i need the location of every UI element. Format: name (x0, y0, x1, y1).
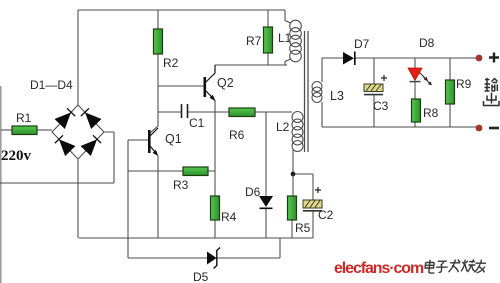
diode D6 (259, 196, 273, 207)
wire D6 anode vertical (265, 112, 267, 196)
watermark chinese dian (425, 260, 436, 273)
wire bridge top to top rail (77, 10, 79, 105)
wire Q2 base (158, 85, 204, 87)
wire Q1 emitter vertical (157, 156, 159, 238)
wire R3 row (128, 170, 215, 172)
node A junction dot (291, 172, 296, 177)
svg-text:R9: R9 (456, 77, 472, 91)
svg-text:R7: R7 (246, 34, 262, 48)
svg-text:D8: D8 (419, 36, 435, 50)
zener diode D5 (207, 252, 217, 265)
resistor R2 (154, 29, 163, 54)
resistor R5 (288, 196, 297, 220)
output terminal minus (476, 125, 483, 132)
label shuchu output chinese (484, 78, 500, 106)
wire secondary top rail (322, 57, 476, 59)
wire R2 bottom lead to C1 node (157, 54, 159, 112)
svg-text:R8: R8 (423, 106, 439, 120)
wire L3 bottom lead (321, 102, 323, 127)
page edge shading left (0, 86, 2, 283)
wire 220v return line (0, 132, 114, 183)
svg-text:C1: C1 (189, 116, 205, 130)
svg-text:D1—D4: D1—D4 (30, 78, 73, 92)
inductor L2 feedback winding (292, 112, 303, 152)
resistor R8 (412, 99, 421, 122)
watermark chinese you (474, 260, 486, 273)
svg-text:L1: L1 (278, 31, 292, 45)
wire node A to R5 (292, 174, 294, 196)
wire D8 leads (414, 58, 416, 99)
svg-text:D7: D7 (354, 37, 370, 51)
wire C1 left node (158, 111, 181, 113)
wire node A to C2 (293, 174, 313, 200)
capacitor C2 electrolytic (303, 187, 322, 211)
wire D5 loop (128, 238, 280, 258)
wire C2 bottom lead (312, 211, 314, 238)
svg-text:R6: R6 (229, 128, 245, 142)
LED D8 (408, 68, 422, 81)
svg-text:elecfans·com: elecfans·com (334, 260, 424, 277)
wire ground rail (79, 237, 313, 239)
node bridge diamond (52, 105, 104, 159)
wire L2 bottom to node A (292, 150, 294, 174)
wire Q1 collector (150, 112, 158, 133)
svg-text:R2: R2 (163, 56, 179, 70)
transistor Q1 (149, 128, 158, 154)
output terminal plus (476, 55, 483, 62)
inductor L1 primary winding (290, 20, 302, 62)
svg-text:R5: R5 (295, 221, 311, 235)
wire R7 bottom lead (267, 53, 269, 65)
diode bridge D2 top-right (81, 108, 100, 128)
svg-text:R4: R4 (221, 210, 237, 224)
svg-text:R1: R1 (16, 111, 32, 125)
svg-text:C2: C2 (318, 208, 334, 222)
diode bridge D1 top-left (56, 108, 75, 128)
svg-text:L2: L2 (276, 120, 290, 134)
resistor R4 (211, 196, 220, 220)
resistor R1 (12, 126, 37, 135)
svg-text:D6: D6 (245, 185, 261, 199)
wire top rail (78, 9, 285, 11)
wire Q1 base (128, 139, 148, 141)
diode bridge D3 bottom-left (55, 135, 74, 155)
wire R4 bottom lead (214, 220, 216, 238)
svg-text:220v: 220v (1, 148, 32, 164)
capacitor C1 (182, 104, 188, 118)
svg-text:Q2: Q2 (217, 76, 234, 90)
svg-text:R3: R3 (173, 178, 189, 192)
wire C3 top lead (373, 58, 375, 84)
wire R7 top lead (267, 10, 269, 27)
wire R1 to bridge left node (37, 129, 52, 131)
wire R8 bottom lead (414, 122, 416, 127)
svg-text:D5: D5 (193, 270, 209, 283)
wire L1 top lead (285, 10, 291, 23)
wire L1 bottom lead (285, 59, 291, 65)
transformer core (305, 31, 309, 152)
resistor R6 (229, 108, 255, 117)
inductor L3 secondary winding (312, 82, 322, 103)
diode bridge D4 bottom-right (82, 135, 101, 155)
wire D6 cathode to ground (265, 209, 267, 238)
resistor R7 (264, 27, 273, 53)
svg-text:Q1: Q1 (165, 132, 182, 146)
wire R2 top lead (157, 10, 159, 29)
svg-text:L3: L3 (330, 89, 344, 103)
wire C3 bottom lead (373, 95, 375, 127)
watermark chinese zi (436, 261, 449, 272)
wire bridge bottom to ground rail (77, 159, 79, 238)
wire C1 right to R6 (188, 111, 229, 113)
wire R5 bottom lead (291, 220, 293, 238)
wire Q2 collector row (215, 64, 287, 66)
wire Q2 emitter vertical (214, 100, 216, 196)
wire Q1 base vertical to D5 (127, 140, 129, 258)
wire R9 leads (449, 58, 451, 127)
wire secondary bottom rail (322, 126, 476, 128)
svg-text:C3: C3 (373, 99, 389, 113)
watermark chinese shao (461, 259, 476, 272)
diode D7 (343, 52, 354, 65)
wire L3 top lead (321, 58, 323, 82)
capacitor C3 electrolytic (364, 75, 387, 95)
transistor Q2 (205, 65, 215, 99)
resistor R9 (446, 80, 455, 104)
resistor R3 (183, 167, 208, 176)
wire 220v live input (1, 129, 12, 131)
watermark chinese fa (449, 260, 461, 273)
wire R6 to L2 top (255, 111, 292, 113)
